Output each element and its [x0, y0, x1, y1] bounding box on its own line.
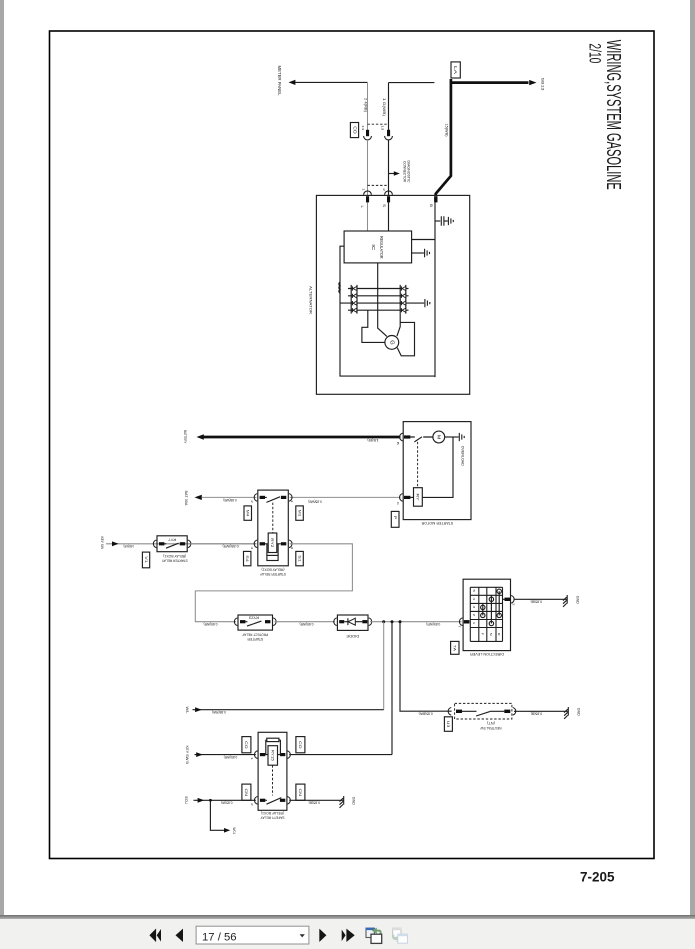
svg-text:M1: M1: [297, 510, 301, 517]
svg-text:W/L: W/L: [185, 707, 189, 714]
junction node C: [399, 620, 402, 623]
contact circle N1: [489, 621, 493, 625]
wire label: [531, 600, 543, 604]
direction lever contact grid: [470, 587, 502, 641]
pin 13: [380, 125, 384, 130]
relay RY15 contact: [265, 798, 281, 805]
connector M4 box label: [244, 506, 252, 520]
label DIODE: [346, 634, 360, 638]
wire RY7 to RY2: [189, 543, 256, 545]
svg-text:0.85(WR): 0.85(WR): [124, 544, 134, 548]
relay RY2 starter relay box: [258, 490, 289, 566]
wire direction lever to ground: [514, 598, 567, 600]
label NEUTRAL SW (NT): [480, 721, 502, 730]
connector 7A box label: [451, 641, 459, 654]
junction node B: [391, 620, 394, 623]
ground GND at direction lever: [563, 595, 567, 607]
svg-text:2/10: 2/10: [586, 43, 604, 63]
svg-text:SB13: SB13: [540, 78, 544, 91]
neutral switch dashed box: [455, 703, 512, 719]
arrow to W01: [224, 828, 230, 833]
arrow to bat 30a: [195, 495, 202, 500]
IC regulator box U1: [344, 231, 412, 263]
svg-text:0.85(WR): 0.85(WR): [204, 622, 218, 626]
label STARTER MOTOR: [421, 521, 453, 525]
arrow from w/l: [195, 707, 202, 712]
svg-text:DIRECTION LEVER: DIRECTION LEVER: [470, 652, 504, 656]
svg-text:15(WB): 15(WB): [445, 124, 449, 137]
svg-text:U3: U3: [446, 721, 451, 728]
connector U3 box label: [444, 717, 452, 732]
connector dashed link CO: [368, 123, 389, 125]
connector socket arc L at alternator: [364, 191, 372, 195]
contact bars direction lever: [483, 591, 499, 623]
ground at regulator: [425, 249, 430, 257]
svg-text:0.85(B): 0.85(B): [309, 801, 321, 805]
svg-text:0.85(B): 0.85(B): [531, 712, 543, 716]
svg-text:0.85(WR): 0.85(WR): [300, 622, 314, 626]
toolbar previous-view icon: [366, 928, 374, 937]
connector S1 box label: [296, 551, 304, 565]
svg-text:(RELAY BOX1): (RELAY BOX1): [163, 554, 186, 558]
svg-text:2: 2: [382, 188, 386, 191]
wire drop A to w/l row: [383, 622, 385, 710]
svg-text:3: 3: [290, 547, 294, 550]
connector pad top-right RY2: [281, 496, 286, 499]
svg-text:S1: S1: [297, 555, 301, 562]
rectifier right bus: [400, 285, 406, 314]
wire L vertical upper: [367, 82, 369, 130]
relay RY7 contact: [164, 543, 178, 548]
connector P box label: [391, 511, 399, 527]
pin 1: [250, 757, 254, 760]
svg-text:P: P: [393, 516, 398, 520]
wire label: [426, 622, 440, 626]
position R: [497, 633, 501, 637]
connector pad right direction lever: [505, 598, 511, 601]
connector socket arc bottom-left RY15: [254, 797, 257, 805]
wire S horizontal top: [389, 82, 435, 84]
connector socket arc wire S: [385, 136, 393, 140]
relay RY15 safety relay box: [258, 732, 287, 810]
wire meter panel horizontal: [295, 81, 368, 83]
pin 7: [458, 625, 462, 628]
svg-text:7A: 7A: [453, 645, 458, 652]
pin 3: [472, 606, 476, 609]
connector pad B at alternator: [434, 196, 437, 202]
arrow to battery: [197, 434, 204, 439]
contact circle F2: [481, 613, 485, 617]
arrow to diagnostic connector: [389, 173, 395, 175]
pin 4: [250, 547, 254, 550]
diode D1 symbol: [344, 618, 362, 625]
svg-text:W01: W01: [232, 827, 236, 834]
svg-text:M: M: [436, 435, 441, 440]
pin C: [396, 502, 400, 506]
svg-text:METER PANEL: METER PANEL: [277, 66, 282, 97]
connector pad top-right RY15: [280, 753, 285, 756]
svg-text:1: 1: [472, 622, 476, 625]
resistor loop RY2: [267, 544, 278, 556]
thick wire B vertical: [436, 79, 451, 196]
svg-text:STARTER MOTOR: STARTER MOTOR: [421, 521, 453, 525]
svg-text:N: N: [489, 633, 493, 636]
junction node A: [382, 620, 385, 623]
svg-text:CO: CO: [352, 126, 357, 134]
wire coil leads RY15: [265, 754, 280, 756]
contact circle R5: [497, 589, 501, 593]
starter contact: [410, 437, 433, 442]
label STARTER RELAY (RELAY BOX1): [259, 567, 286, 576]
pin 2: [250, 803, 254, 806]
connector socket arc left RY23: [234, 618, 237, 626]
wire w/l row: [193, 709, 384, 711]
connector CO box label top-right: [296, 737, 305, 753]
svg-text:RY: RY: [416, 494, 421, 501]
svg-text:DIODE: DIODE: [346, 634, 360, 638]
svg-text:RY23: RY23: [249, 616, 259, 620]
pin 2: [472, 614, 476, 617]
svg-text:BAT 30A: BAT 30A: [184, 491, 188, 506]
connector pad left RY7: [159, 542, 164, 545]
arrow from key sw b: [196, 752, 203, 757]
resistor loop RY15: [266, 740, 281, 755]
wire brush loop: [397, 322, 414, 355]
wire label on battery wire: [367, 438, 378, 442]
connector socket arc left diode: [334, 618, 337, 626]
svg-text:1: 1: [361, 188, 365, 191]
relay RY23 starter protect relay box: [238, 615, 273, 630]
connector pad wire S: [387, 130, 390, 136]
generator G symbol: [385, 336, 399, 350]
ground at stator rail: [425, 299, 430, 307]
node KEY SW label: [100, 537, 104, 550]
wire label: [124, 544, 134, 548]
wire relay to solenoid: [290, 496, 401, 498]
connector pad right RY23: [265, 620, 270, 623]
direction lever switch box: [463, 579, 510, 650]
svg-text:RY2: RY2: [270, 538, 274, 547]
wire B vertical inside alternator: [434, 202, 436, 377]
svg-text:0.85(WB): 0.85(WB): [223, 498, 236, 502]
toolbar next-view icon disabled: [393, 928, 401, 937]
pin 3: [290, 547, 294, 550]
wire label 24(RB): [364, 98, 368, 112]
svg-text:0.85(B): 0.85(B): [531, 600, 543, 604]
starter motor M symbol: [433, 431, 445, 443]
diodes right column: [400, 286, 402, 312]
svg-text:CN: CN: [298, 789, 303, 797]
svg-text:0.85(WR): 0.85(WR): [426, 622, 440, 626]
svg-text:WIRING,SYSTEM GASOLINE: WIRING,SYSTEM GASOLINE: [602, 40, 625, 190]
svg-text:(RELAY BOX1): (RELAY BOX1): [261, 811, 284, 815]
relay coil RY15: [268, 746, 278, 766]
connector socket arc bottom-left RY2: [254, 540, 257, 548]
svg-text:0.85(WR): 0.85(WR): [224, 755, 238, 759]
connector pad bottom-left RY15: [260, 799, 265, 802]
dashed link alternator plug: [368, 184, 389, 186]
wire drop B to safety relay: [391, 622, 393, 755]
svg-text:R: R: [497, 633, 501, 637]
thick wire B horizontal to SB: [451, 81, 529, 84]
connector socket arc top-right RY2: [289, 494, 292, 502]
svg-text:0.85(RW): 0.85(RW): [212, 710, 226, 714]
svg-text:17 / 56: 17 / 56: [202, 931, 237, 943]
wire pad to coil: [410, 496, 413, 498]
wire safety relay to drop B: [289, 754, 392, 756]
toolbar last-page button: [342, 930, 346, 942]
wire regulator to generator: [378, 263, 387, 337]
node ECU label: [184, 797, 188, 805]
wire M to ground: [445, 436, 459, 438]
node BAT 30A label: [184, 491, 188, 506]
relay RY23 name: [249, 616, 259, 620]
connector socket arc top-left RY2: [254, 494, 257, 502]
alternator inner frame: [340, 246, 435, 376]
connector pad L inside alternator: [366, 196, 369, 202]
node KEY SW B label: [185, 746, 189, 765]
wire label: [212, 710, 226, 714]
label STARTER PROTECT RELAY: [242, 633, 269, 642]
svg-text:2: 2: [250, 500, 254, 503]
pin 1: [290, 500, 294, 503]
connector M1 box label: [296, 506, 304, 520]
connector V1 box label: [142, 552, 149, 568]
svg-text:B: B: [429, 204, 433, 207]
wire solenoid to motor return: [422, 437, 453, 497]
ground at starter motor: [459, 433, 464, 441]
wire L to regulator: [367, 202, 369, 231]
toolbar first-page button: [149, 929, 156, 943]
connector socket arc bottom-right RY2: [289, 540, 292, 548]
svg-text:1: 1: [290, 500, 294, 503]
connector pad top-left RY2: [260, 496, 265, 499]
svg-text:2 4(RB): 2 4(RB): [364, 98, 368, 112]
connector socket arc left neutral sw: [448, 708, 451, 716]
toolbar prev-page button: [176, 929, 184, 942]
svg-text:KEY SW: KEY SW: [100, 537, 104, 550]
wire regulator ground stub: [412, 252, 424, 254]
svg-text:1 G(WB): 1 G(WB): [382, 98, 386, 116]
title WIRING,SYSTEM GASOLINE: [602, 40, 625, 190]
thick battery wire to starter: [204, 436, 401, 439]
svg-text:G: G: [388, 340, 394, 345]
pin 5: [472, 590, 476, 593]
diodes left column: [351, 286, 353, 312]
pin 14: [361, 125, 365, 130]
sheet number 2/10: [586, 43, 604, 63]
arrow from key sw: [112, 541, 119, 546]
connector pad bottom-right RY15: [280, 799, 285, 802]
label ALTERNATOR: [308, 286, 313, 314]
connector socket arc top-right RY15: [287, 751, 290, 759]
svg-text:2: 2: [472, 614, 476, 617]
pin 2: [511, 603, 515, 606]
contact circle N4: [489, 597, 493, 601]
wire RY2 to protect relay s-bend: [195, 544, 352, 622]
wire S vertical lower: [388, 140, 390, 196]
capacitor C1 on B line: [435, 220, 440, 222]
rotor field coil: [339, 282, 340, 293]
svg-text:0.85(BW): 0.85(BW): [419, 712, 433, 716]
stator rail 3 to ground: [340, 302, 424, 304]
connector pad B starter: [404, 435, 410, 438]
label STARTER RELAY (RELAY BOX1): [161, 554, 188, 563]
label OVERLOAD: [461, 446, 465, 466]
svg-text:F: F: [480, 633, 484, 636]
wire ecu to safety relay contact: [194, 799, 256, 801]
svg-text:5: 5: [472, 590, 476, 593]
connector pad top-left RY15: [260, 753, 265, 756]
svg-text:STARTER RELAY: STARTER RELAY: [259, 572, 286, 576]
wire label neutral feed: [419, 712, 433, 716]
neutral switch contact: [462, 711, 504, 716]
svg-text:(NT): (NT): [487, 721, 495, 725]
arrow to METER PANEL: [289, 80, 296, 85]
svg-text:SAFETY RELAY: SAFETY RELAY: [260, 816, 285, 820]
wire key sw: [106, 543, 256, 545]
connector pad bottom-left RY2: [260, 542, 265, 545]
svg-text:LA: LA: [453, 66, 458, 74]
pin 4: [472, 598, 476, 601]
svg-text:0.85(WB): 0.85(WB): [308, 500, 321, 504]
connector CO box label: [350, 123, 358, 138]
ground at capacitor: [448, 217, 453, 225]
connector socket arc right direction lever: [511, 596, 514, 604]
svg-text:PROTECT RELAY: PROTECT RELAY: [242, 633, 269, 637]
wire label 15(WB) on B wire: [445, 124, 449, 137]
wire label: [223, 498, 236, 502]
svg-text:CONNECTOR: CONNECTOR: [403, 161, 407, 182]
wire coil leads RY2: [265, 543, 281, 545]
connector pad right RY7: [180, 542, 185, 545]
wire bat30a to starter relay: [202, 496, 257, 498]
position F: [480, 633, 484, 636]
svg-text:7-205: 7-205: [580, 870, 615, 885]
net label W01: [232, 827, 236, 834]
starter motor box: [403, 422, 471, 520]
contact circle F3: [481, 605, 485, 609]
svg-text:CN: CN: [244, 789, 249, 797]
relay coil RY2: [268, 533, 277, 553]
wire label: [531, 712, 543, 716]
wire label: [224, 755, 238, 759]
connector socket arc bottom-right RY15: [287, 797, 290, 805]
dashed link solenoid: [417, 442, 419, 488]
label DIAGNOSTIC CONNECTOR: [407, 161, 411, 183]
svg-text:3: 3: [472, 606, 476, 609]
connector S4 box label: [244, 551, 251, 565]
solenoid coil RY: [414, 488, 423, 507]
relay RY2 contact: [265, 497, 280, 503]
svg-text:NEUTRAL SW: NEUTRAL SW: [480, 726, 502, 730]
wire label: [223, 544, 239, 548]
LA fuse box label: [451, 62, 460, 78]
svg-text:4: 4: [472, 598, 476, 601]
connector pad left diode: [339, 620, 344, 623]
connector socket arc B at starter: [400, 433, 403, 441]
svg-text:BATTERY: BATTERY: [183, 430, 187, 444]
wire branch to W01: [210, 800, 224, 830]
svg-text:13: 13: [380, 125, 384, 130]
connector pad right neutral sw: [504, 710, 510, 713]
svg-text:RY15: RY15: [270, 750, 274, 761]
toolbar next-page button: [319, 929, 326, 942]
connector socket arc right RY7: [188, 540, 191, 548]
stator rail 1: [348, 288, 409, 290]
dashed link RY2: [272, 503, 274, 533]
svg-text:KEY SW B: KEY SW B: [185, 746, 189, 765]
svg-text:ECU: ECU: [184, 797, 188, 805]
connector pad wire L: [366, 130, 369, 136]
wire regulator to B line: [412, 239, 435, 241]
svg-text:0.85(W): 0.85(W): [221, 801, 233, 805]
pin 1: [472, 622, 476, 625]
dashed link RY15: [272, 765, 274, 795]
svg-text:CO: CO: [298, 741, 303, 749]
contact circle R2: [497, 613, 501, 617]
wire key sw b to safety relay: [195, 754, 256, 756]
svg-text:M4: M4: [246, 510, 250, 517]
connector socket arc S at alternator: [385, 191, 393, 195]
svg-text:7: 7: [458, 625, 462, 628]
wire diode to direction lever: [370, 621, 461, 623]
node BATTERY label: [183, 430, 187, 444]
wire stator phase left step: [362, 310, 385, 342]
pin L: [360, 206, 364, 209]
arrow from ecu: [198, 798, 205, 803]
ground GND at safety relay: [340, 796, 344, 808]
connector socket arc right neutral sw: [513, 708, 516, 716]
connector socket arc wire L: [364, 136, 372, 140]
connector socket arc right RY23: [273, 618, 276, 626]
stator rail 2: [348, 295, 409, 297]
pin B: [429, 204, 433, 207]
net label SB13: [540, 78, 544, 91]
svg-text:4: 4: [250, 547, 254, 550]
wire label 1G(WB): [382, 98, 386, 116]
relay RY7 name: [168, 538, 176, 542]
toolbar page combo box: [196, 926, 309, 944]
svg-text:S4: S4: [245, 555, 249, 562]
alternator outer box: [316, 195, 469, 394]
svg-text:B: B: [396, 442, 400, 445]
ground GND at neutral sw: [564, 707, 568, 719]
label SAFETY RELAY (RELAY BOX1): [260, 811, 285, 820]
svg-text:REGULATOR: REGULATOR: [379, 236, 384, 259]
connector pad bottom-right RY2: [281, 542, 286, 545]
connector pad left RY23: [240, 620, 245, 623]
connector pad solenoid feed: [404, 496, 410, 499]
pin 2: [250, 500, 254, 503]
svg-text:S: S: [382, 204, 386, 207]
label DIRECTION LEVER: [470, 652, 504, 656]
svg-text:1: 1: [250, 757, 254, 760]
connector CO box label top-left: [242, 737, 251, 753]
relay RY23 contact: [245, 621, 261, 626]
wire protect relay to diode: [275, 621, 336, 623]
connector socket arc right diode: [369, 618, 372, 626]
svg-text:0.85(WR): 0.85(WR): [223, 544, 239, 548]
connector pad left neutral sw: [456, 710, 462, 713]
wire S vertical upper: [388, 83, 390, 131]
diode D1 box: [337, 615, 368, 630]
node METER PANEL label: [277, 66, 282, 97]
svg-text:14: 14: [361, 125, 365, 130]
connector pad right diode: [362, 620, 367, 623]
svg-text:STARTER: STARTER: [247, 637, 263, 641]
node W/L label: [185, 707, 189, 714]
